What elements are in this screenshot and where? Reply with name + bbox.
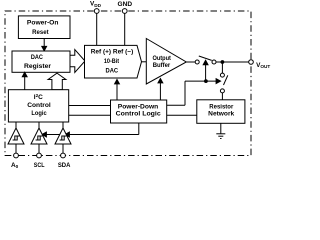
node junction at VOUT line [221, 60, 225, 64]
terminal VDD [94, 9, 99, 14]
wire SDA buffer to SCL buffer [45, 134, 61, 136]
arrow into SDA buffer [65, 132, 69, 137]
bus arrow DAC register to DAC (hollow right arrow) [70, 50, 85, 73]
wire power-down to DAC (arrow up) [116, 84, 118, 101]
power-on reset box [18, 16, 70, 39]
wires I2C logic to power-down logic [69, 105, 111, 107]
svg-text:Reset: Reset [32, 29, 49, 36]
svg-text:I2C: I2C [34, 93, 43, 101]
power-down control logic box [111, 100, 167, 123]
DAC register box [12, 51, 70, 72]
terminal A0 [14, 153, 19, 158]
svg-text:Logic: Logic [31, 110, 47, 117]
wire SDA terminal to buffer [62, 144, 64, 153]
wire VDD to DAC ref(+) [96, 11, 98, 45]
svg-text:DAC: DAC [106, 67, 119, 74]
node on control wire [204, 79, 208, 83]
svg-text:A0: A0 [11, 162, 19, 169]
wire output buffer to switch SW1 [186, 61, 195, 63]
I2C control logic box [8, 90, 68, 122]
wire SCL terminal to buffer [38, 144, 40, 153]
svg-text:SCL: SCL [34, 162, 45, 169]
chip boundary (dash-dot border) [5, 11, 251, 156]
wire power-down to SDA/SCL buffers [138, 123, 140, 135]
arrow up to SW1 lever [205, 65, 207, 82]
svg-text:SDA: SDA [58, 162, 71, 169]
svg-text:GND: GND [118, 1, 133, 8]
svg-text:Power-Down: Power-Down [118, 103, 159, 110]
wire SDA buffer output to I2C logic [62, 122, 64, 128]
svg-text:Control: Control [27, 102, 51, 109]
wire SW1 to VOUT [216, 61, 249, 63]
resistor network box [197, 100, 245, 124]
terminal SDA [61, 153, 66, 158]
10-bit DAC (pentagon block) [85, 45, 142, 78]
switch control wire from power-down logic [167, 104, 185, 106]
ground symbol [220, 123, 222, 134]
input buffer SDA (schmitt trigger) [55, 128, 71, 144]
input buffer A0 (schmitt trigger) [8, 128, 24, 144]
terminal SCL [37, 153, 42, 158]
terminal GND [122, 9, 127, 14]
svg-text:Ref (+) Ref (−): Ref (+) Ref (−) [91, 48, 134, 55]
wire DAC to output buffer [142, 61, 147, 63]
wire A0 buffer output to I2C logic [15, 122, 17, 128]
svg-text:Power-On: Power-On [27, 20, 59, 27]
wire POR to DAC register (arrow) [43, 39, 45, 48]
terminal VOUT [249, 60, 254, 65]
bus arrow I2C logic to DAC register (hollow up arrow) [48, 73, 66, 90]
svg-text:Control Logic: Control Logic [116, 110, 161, 117]
wire power-down to output buffer (arrow up) [159, 83, 161, 101]
svg-text:Register: Register [24, 63, 51, 70]
switch SW2 (pull-down switch) [220, 73, 224, 77]
wire GND to DAC ref(-) [124, 11, 126, 45]
input buffer SCL (schmitt trigger) [31, 128, 47, 144]
svg-text:DAC: DAC [31, 54, 43, 61]
svg-text:Network: Network [208, 111, 234, 118]
output buffer (triangle) [146, 39, 186, 85]
wire SW2 to resistor network [221, 93, 223, 100]
wire power-down to resistor network [167, 114, 197, 116]
svg-text:Buffer: Buffer [153, 62, 171, 69]
arrow into SCL buffer [42, 132, 46, 137]
svg-text:10-Bit: 10-Bit [104, 58, 120, 65]
wire junction down to switch SW2 [221, 62, 223, 73]
wire I2C logic to DAC register (thin arrow) [24, 76, 26, 90]
wire A0 terminal to buffer [15, 144, 17, 153]
wire SCL buffer output to I2C logic [38, 122, 40, 128]
arrow to SW2 lever [216, 79, 220, 84]
switch SW1 (output switch) [195, 60, 199, 64]
